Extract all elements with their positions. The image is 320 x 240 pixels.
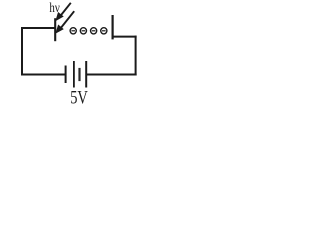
electron e3: [91, 28, 97, 34]
electron e4: [101, 28, 107, 34]
svg-text:5V: 5V: [70, 87, 88, 107]
wire left: [21, 27, 23, 76]
electron e2: [80, 28, 86, 34]
photon arrow 1 shaft: [60, 3, 71, 17]
battery BT1 plate 4 (positive, long, right terminal): [85, 61, 87, 88]
photon arrow 2 shaft: [61, 11, 74, 27]
electron e1: [70, 28, 76, 34]
wire anode lead: [113, 36, 137, 38]
cathode plate K: [54, 18, 56, 41]
battery BT1 plate 1 (negative, left terminal): [65, 66, 67, 84]
wire bottom-left: [21, 74, 66, 76]
battery BT1 plate 2 (positive, long): [73, 61, 75, 88]
battery BT1 plate 3 (negative, short): [78, 68, 80, 81]
photon arrow 2 head: [55, 25, 63, 34]
wire top (cathode lead): [21, 27, 55, 29]
photon arrow 1 head: [55, 12, 63, 21]
anode plate A: [111, 15, 113, 39]
wire bottom-right: [86, 74, 136, 76]
wire right: [135, 36, 137, 76]
